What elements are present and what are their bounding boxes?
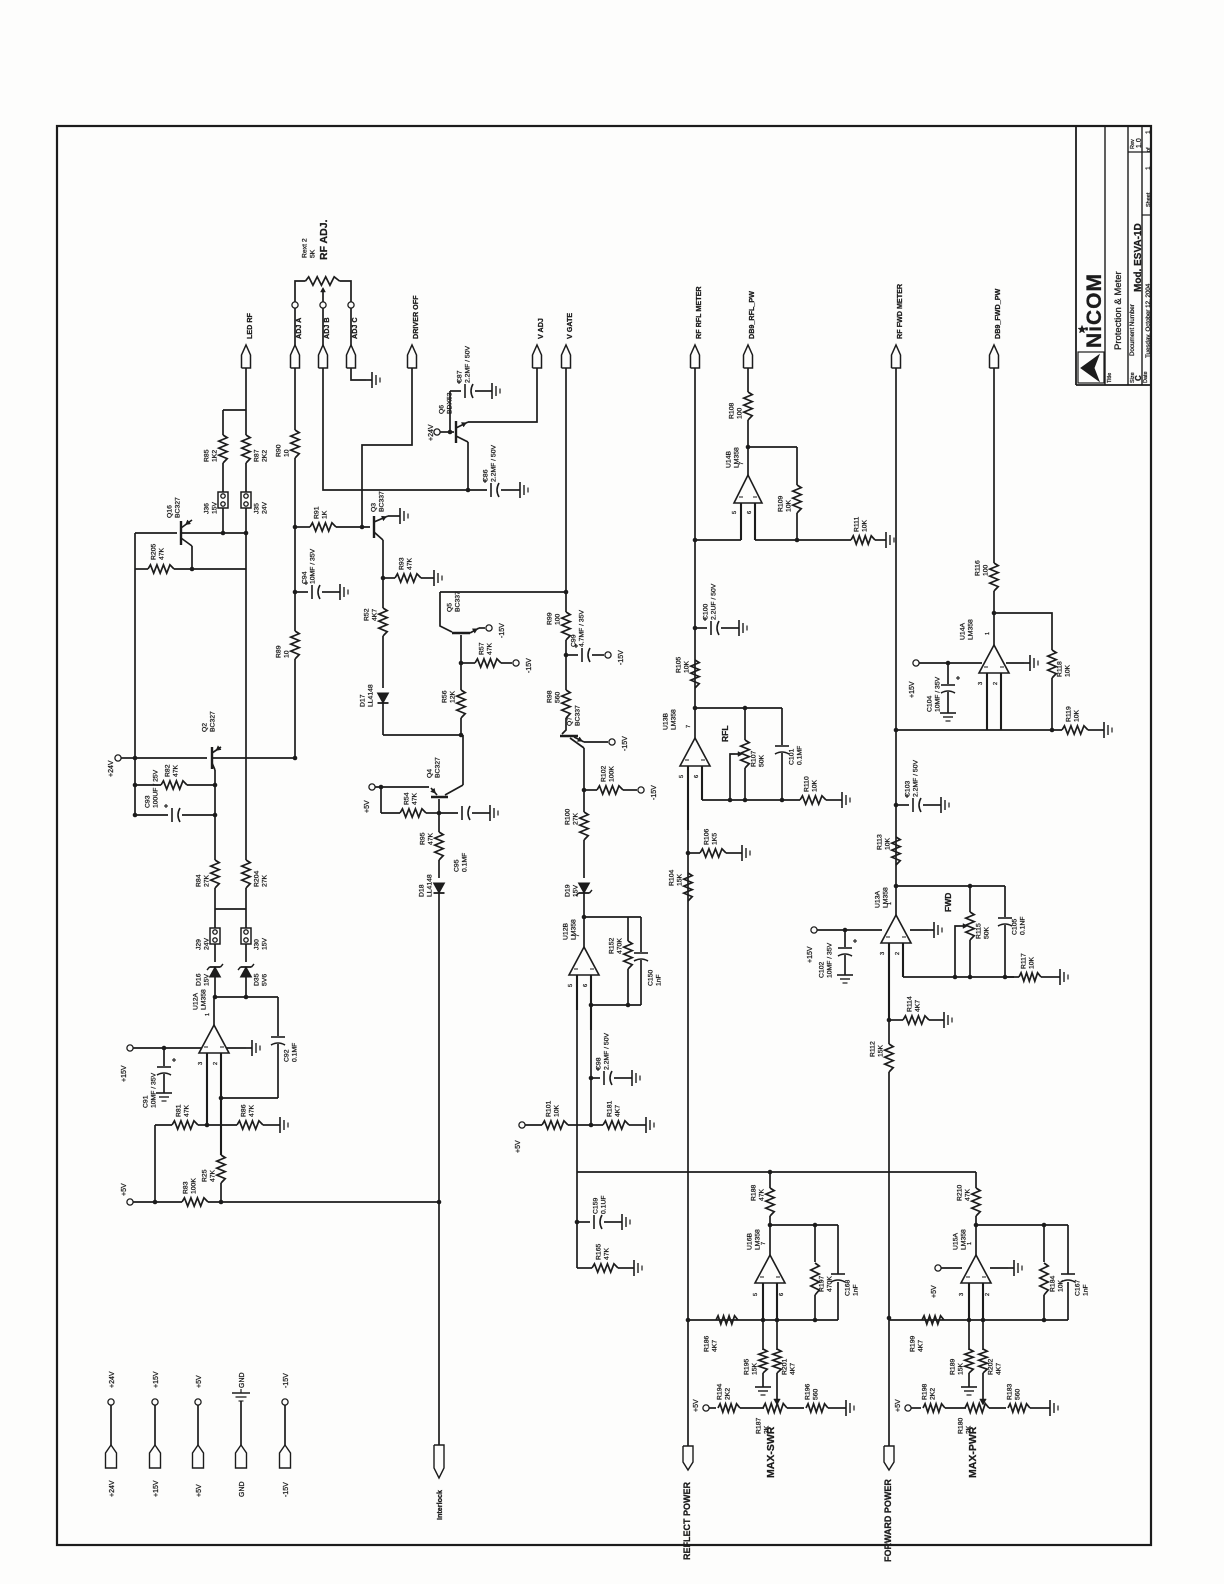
svg-text:LED RF: LED RF	[245, 312, 254, 339]
svg-text:BC327: BC327	[175, 497, 182, 518]
svg-text:R102: R102	[601, 766, 608, 782]
svg-text:R101: R101	[546, 1101, 553, 1117]
svg-text:6: 6	[583, 984, 589, 987]
port ADJ A	[291, 345, 300, 368]
resistor R104 15K	[684, 873, 692, 901]
svg-text:-15V: -15V	[283, 1373, 290, 1388]
svg-text:R187: R187	[756, 1418, 763, 1434]
svg-text:C150: C150	[648, 970, 655, 986]
svg-text:R86: R86	[241, 1104, 248, 1117]
svg-text:100: 100	[983, 564, 990, 576]
svg-text:2.2UF / 50V: 2.2UF / 50V	[711, 583, 718, 620]
svg-text:RFL: RFL	[720, 725, 730, 742]
svg-text:LM358: LM358	[883, 887, 890, 908]
svg-text:+5V: +5V	[121, 1183, 128, 1196]
svg-text:2K2: 2K2	[725, 1388, 732, 1400]
svg-text:15V: 15V	[262, 937, 269, 950]
svg-text:Tuesday, October 12, 2004: Tuesday, October 12, 2004	[1145, 283, 1152, 358]
resistor R109 10K	[748, 446, 797, 448]
capacitor C168 1nF	[837, 1225, 839, 1274]
svg-text:10MF / 35V: 10MF / 35V	[310, 548, 317, 584]
wire U13B feedback top rail	[695, 707, 782, 709]
diode D18 LL4148	[438, 860, 440, 878]
svg-text:27K: 27K	[573, 812, 580, 825]
svg-text:12K: 12K	[450, 690, 457, 703]
jumper J35 24V	[241, 492, 251, 508]
svg-text:15V: 15V	[212, 501, 219, 514]
wire U13A feedback bottom rail	[903, 976, 1014, 978]
svg-text:R98: R98	[547, 690, 554, 703]
trimmer R115 50K FWD	[969, 886, 971, 912]
capacitor C94 10MF/35V	[293, 590, 298, 595]
svg-text:U12B: U12B	[563, 923, 570, 940]
svg-text:4K7: 4K7	[915, 1000, 922, 1012]
svg-text:R189: R189	[950, 1359, 957, 1375]
wire U13A feedback top rail	[896, 885, 1005, 887]
wire U12B input pin5 long	[576, 975, 578, 1010]
capacitor C100 2.2UF/50V	[695, 627, 707, 629]
svg-text:100: 100	[737, 407, 744, 419]
svg-text:U14A: U14A	[960, 623, 967, 640]
svg-text:C99: C99	[571, 634, 578, 647]
svg-text:Protection & Meter: Protection & Meter	[1113, 271, 1124, 350]
svg-text:100K: 100K	[609, 766, 616, 782]
svg-text:10K: 10K	[786, 499, 793, 512]
svg-text:-15V: -15V	[622, 736, 629, 751]
svg-text:R84: R84	[196, 874, 203, 887]
svg-text:2.2MF / 50V: 2.2MF / 50V	[604, 1033, 611, 1070]
svg-text:10K: 10K	[812, 779, 819, 792]
svg-text:3: 3	[880, 952, 886, 955]
svg-text:MAX-PWR: MAX-PWR	[967, 1426, 979, 1478]
svg-text:DRIVER OFF: DRIVER OFF	[411, 295, 420, 339]
svg-text:C86: C86	[483, 469, 490, 482]
svg-text:U13B: U13B	[663, 713, 670, 730]
svg-text:FWD: FWD	[943, 893, 953, 912]
capacitor C87 2.2MF/50V	[449, 391, 451, 432]
wire left rail +24V column	[134, 533, 136, 758]
svg-text:1K5: 1K5	[712, 833, 719, 845]
capacitor C167 1nF	[1067, 1225, 1069, 1274]
op-amp U12B LM358	[583, 917, 585, 947]
svg-text:10MF / 35V: 10MF / 35V	[151, 1072, 158, 1108]
wire J35 down through Q16 node to R205 row	[245, 508, 247, 569]
svg-text:7: 7	[686, 725, 692, 728]
svg-text:R82: R82	[165, 764, 172, 777]
svg-text:C167: C167	[1075, 1280, 1082, 1296]
svg-text:BC327: BC327	[435, 757, 442, 778]
svg-text:+5V: +5V	[515, 1140, 522, 1153]
capacitor C98 2.2MF/50V	[589, 1076, 594, 1081]
ground at ADJ C	[366, 379, 372, 381]
svg-text:MAX-SWR: MAX-SWR	[765, 1426, 777, 1478]
op-amp U13B LM358	[694, 708, 696, 738]
capacitor C102 10MF/35V	[843, 928, 848, 933]
svg-text:4K7: 4K7	[996, 1363, 1003, 1375]
capacitor C91 10MF/35V	[162, 1046, 167, 1051]
svg-text:C94: C94	[302, 571, 309, 584]
svg-text:LM358: LM358	[671, 709, 678, 730]
svg-text:47K: 47K	[249, 1104, 256, 1117]
transistor Q5 BC337	[440, 592, 452, 632]
svg-text:U14B: U14B	[726, 451, 733, 468]
svg-text:BC337: BC337	[455, 591, 462, 612]
port LED RF	[242, 345, 251, 368]
svg-text:U16B: U16B	[747, 1233, 754, 1250]
svg-text:50K: 50K	[759, 754, 766, 767]
resistor R56 12K	[460, 663, 462, 690]
resistor R197 470K	[814, 1225, 816, 1262]
svg-text:C92: C92	[284, 1049, 291, 1062]
trimmer R187 2K	[763, 1404, 787, 1413]
wire Interlock	[438, 1202, 440, 1445]
svg-text:GND: GND	[239, 1372, 246, 1388]
svg-text:+24V: +24V	[108, 760, 115, 777]
svg-text:1: 1	[985, 632, 991, 635]
zener D35 5V6	[245, 944, 247, 962]
svg-text:R115: R115	[976, 923, 983, 939]
svg-text:R119: R119	[1066, 706, 1073, 722]
svg-text:47K: 47K	[412, 792, 419, 805]
svg-text:BC337: BC337	[379, 491, 386, 512]
wire U13B input pin6	[701, 766, 703, 800]
port V GATE	[562, 345, 571, 368]
resistor R101 10K	[525, 1124, 542, 1126]
svg-text:10K: 10K	[862, 519, 869, 532]
svg-text:R54: R54	[404, 792, 411, 805]
wire tie R85 R87 tops	[223, 409, 246, 411]
capacitor C103 2.2MF/50V	[896, 804, 909, 806]
svg-text:-15V: -15V	[618, 650, 625, 665]
svg-text:R198: R198	[922, 1384, 929, 1400]
svg-text:15K: 15K	[958, 1362, 965, 1375]
svg-text:Mod. ESVA-1D: Mod. ESVA-1D	[1133, 223, 1144, 292]
svg-text:2.2MF / 50V: 2.2MF / 50V	[491, 445, 498, 482]
svg-text:R93: R93	[399, 557, 406, 570]
resistor R82 47K	[133, 783, 138, 788]
port REFLECT POWER	[683, 1446, 693, 1470]
resistor R106 1K5	[688, 852, 700, 854]
svg-text:D16: D16	[196, 973, 203, 986]
svg-text:5V6: 5V6	[262, 974, 269, 986]
svg-text:R117: R117	[1021, 953, 1028, 969]
wire C159 R165 stub	[576, 1172, 578, 1268]
svg-text:C93: C93	[145, 795, 152, 808]
svg-text:560: 560	[555, 691, 562, 703]
wire DB9_FWD_PW down	[993, 368, 995, 563]
ground U15A pin4	[990, 1267, 1008, 1269]
svg-text:4.7MF / 35V: 4.7MF / 35V	[579, 610, 586, 647]
resistor R199 4K7	[922, 1316, 944, 1324]
resistor R205 47K	[135, 568, 148, 570]
svg-text:+24V: +24V	[109, 1371, 116, 1388]
transistor Q7 BC337	[562, 728, 566, 734]
wire U16B feedback top rail	[770, 1224, 838, 1226]
capacitor C92 0.1MF	[277, 997, 279, 1036]
svg-text:Q16: Q16	[167, 505, 174, 518]
svg-text:3: 3	[978, 682, 984, 685]
svg-text:+5V: +5V	[693, 1399, 700, 1412]
port ADJ C	[347, 345, 356, 368]
wire C86 rail	[325, 489, 487, 491]
capacitor C101 0.1MF	[781, 708, 783, 745]
capacitor C99 4.7MF/35V	[564, 653, 569, 658]
svg-text:100UF / 25V: 100UF / 25V	[153, 769, 160, 808]
svg-text:+5V: +5V	[364, 800, 371, 813]
pin circle ADJ C	[348, 302, 354, 308]
wire +24V to Q2	[135, 757, 207, 759]
wire ADJ A down to R90	[294, 368, 296, 430]
port DB9_RFL_PW	[744, 345, 753, 368]
svg-text:4K7: 4K7	[372, 609, 379, 621]
ground U13A pin4	[910, 929, 928, 931]
resistor R95 47K	[435, 832, 443, 860]
svg-text:24V: 24V	[204, 937, 211, 950]
svg-text:+15V: +15V	[153, 1480, 160, 1497]
pin circle ADJ A	[292, 302, 298, 308]
svg-text:R91: R91	[314, 506, 321, 519]
svg-text:4K7: 4K7	[790, 1363, 797, 1375]
wire U14A input pin2	[1000, 673, 1002, 730]
svg-text:5K: 5K	[310, 249, 317, 258]
svg-text:C168: C168	[845, 1280, 852, 1296]
svg-text:+5V: +5V	[895, 1399, 902, 1412]
svg-text:LL4148: LL4148	[427, 874, 434, 897]
op-amp U16B LM358	[769, 1225, 771, 1255]
svg-text:R87: R87	[254, 449, 261, 462]
svg-text:47K: 47K	[965, 1188, 972, 1201]
svg-text:15V: 15V	[573, 884, 580, 897]
resistor R25 47K	[217, 1155, 225, 1183]
resistor R198 2K2	[911, 1407, 921, 1409]
svg-text:LM358: LM358	[961, 1229, 968, 1250]
svg-text:6: 6	[694, 775, 700, 778]
svg-text:U15A: U15A	[953, 1233, 960, 1250]
svg-text:LM358: LM358	[201, 989, 208, 1010]
svg-text:U13A: U13A	[875, 891, 882, 908]
resistor R110 10K	[800, 796, 826, 804]
wire V GATE down	[565, 368, 567, 612]
trimmer Rext2 5K	[306, 277, 340, 285]
svg-text:5: 5	[568, 984, 574, 987]
power pin +5V circle MAX-PWR	[905, 1405, 911, 1411]
svg-text:2: 2	[985, 1293, 991, 1296]
svg-text:R205: R205	[151, 544, 158, 560]
op-amp U14B LM358	[747, 447, 749, 475]
svg-text:10MF / 35V: 10MF / 35V	[935, 676, 942, 712]
svg-text:0.1MF: 0.1MF	[292, 1043, 299, 1062]
jumper J30 15V	[241, 928, 251, 944]
wire U15A input pin3	[968, 1283, 970, 1320]
wire Q5 collector row	[440, 591, 566, 593]
port ADJ B	[319, 345, 328, 368]
svg-text:0.1MF: 0.1MF	[462, 853, 469, 872]
wire U12A input pin3	[206, 1053, 208, 1125]
svg-text:Q2: Q2	[202, 723, 209, 732]
resistor R195 15K	[762, 1320, 764, 1350]
svg-text:10K: 10K	[1065, 664, 1072, 677]
svg-text:2.2MF / 50V: 2.2MF / 50V	[913, 760, 920, 797]
wire U13B input pin5 long	[687, 766, 689, 830]
svg-text:7: 7	[761, 1242, 767, 1245]
svg-text:R57: R57	[479, 642, 486, 655]
trimmer R180 2K	[965, 1404, 989, 1413]
svg-text:Sheet: Sheet	[1146, 192, 1152, 207]
svg-text:LM358: LM358	[968, 619, 975, 640]
svg-text:+5V: +5V	[931, 1285, 938, 1298]
svg-text:NiCOM: NiCOM	[1083, 273, 1106, 348]
port FORWARD POWER	[884, 1446, 894, 1470]
port RF FWD METER	[892, 345, 901, 368]
svg-text:Date: Date	[1143, 371, 1149, 383]
svg-text:4K7: 4K7	[918, 1340, 925, 1352]
resistor R93 47K	[381, 576, 386, 581]
jumper J29 24V	[210, 928, 220, 944]
svg-text:100K: 100K	[191, 1178, 198, 1194]
wire R81 to +5V rail	[154, 1125, 156, 1202]
svg-text:D18: D18	[419, 884, 426, 897]
svg-text:C87: C87	[457, 370, 464, 383]
svg-text:R99: R99	[547, 612, 554, 625]
Rext2 wiper arrow	[322, 291, 324, 302]
svg-text:2.2MF / 50V: 2.2MF / 50V	[465, 346, 472, 383]
wire U16B feedback bottom rail	[688, 1319, 838, 1321]
svg-text:1nF: 1nF	[656, 974, 663, 986]
jumper J36 15V	[218, 492, 228, 508]
power pin -15V circle C99	[605, 652, 611, 658]
svg-text:D35: D35	[254, 973, 261, 986]
zener D16 15V	[214, 944, 216, 962]
svg-text:R83: R83	[183, 1181, 190, 1194]
svg-text:24V: 24V	[262, 501, 269, 514]
power pin +15V circle U13A	[811, 927, 817, 933]
wire U13B feedback bottom rail	[702, 799, 800, 801]
resistor R83 100K	[133, 1201, 182, 1203]
wire U12A feedback top rail	[213, 995, 218, 1000]
svg-text:10K: 10K	[1029, 956, 1036, 969]
svg-text:D17: D17	[360, 694, 367, 707]
svg-text:47K: 47K	[210, 1169, 217, 1182]
power pin -15V circle R102	[638, 787, 644, 793]
resistor R202 4K7	[982, 1320, 984, 1350]
svg-text:R100: R100	[565, 809, 572, 825]
transistor Q2 BC327	[211, 747, 213, 769]
svg-text:+15V: +15V	[909, 681, 916, 698]
resistor R183 560	[989, 1407, 1006, 1409]
wire REFLECT POWER	[687, 1320, 689, 1446]
svg-text:Title: Title	[1107, 373, 1113, 383]
svg-text:R52: R52	[364, 608, 371, 621]
op-amp U14A LM358	[993, 613, 995, 645]
svg-text:Q3: Q3	[371, 503, 378, 512]
svg-text:1: 1	[1145, 130, 1152, 134]
svg-text:+5V: +5V	[196, 1484, 203, 1497]
wire U12A feedback bottom rail	[221, 1097, 278, 1099]
wire U16B input pin5	[762, 1283, 764, 1320]
resistor R194 2K2	[709, 1407, 716, 1409]
wire FORWARD POWER	[888, 1320, 890, 1446]
wire ADJ B long vertical to C86 rail	[323, 368, 325, 490]
svg-text:of: of	[1146, 147, 1152, 152]
transistor Q4 BC327	[375, 786, 429, 788]
wire U14A input rail	[896, 729, 1062, 731]
svg-text:5: 5	[753, 1293, 759, 1296]
svg-text:3: 3	[959, 1293, 965, 1296]
power pin -15V circle R57	[513, 660, 519, 666]
svg-text:10K: 10K	[684, 660, 691, 673]
wire U13A input pin2	[902, 943, 904, 977]
pin circle ADJ B	[320, 302, 326, 308]
svg-text:+24V: +24V	[109, 1480, 116, 1497]
capacitor C159 0.1UF	[577, 1221, 590, 1223]
svg-text:C: C	[1134, 375, 1143, 381]
wire tie chain	[215, 908, 246, 910]
svg-text:R188: R188	[751, 1185, 758, 1201]
wire U14B input pin6	[754, 503, 756, 540]
svg-text:1K: 1K	[322, 510, 329, 519]
svg-text:470K: 470K	[827, 1276, 834, 1292]
wire U16B input pin6	[776, 1283, 778, 1320]
svg-text:Q6: Q6	[439, 405, 446, 414]
resistor R118 10K	[994, 613, 1052, 650]
svg-text:10MF / 35V: 10MF / 35V	[827, 942, 834, 978]
svg-text:FORWARD POWER: FORWARD POWER	[883, 1479, 893, 1562]
wire U12B feedback top rail	[582, 915, 587, 920]
svg-text:6: 6	[779, 1293, 785, 1296]
svg-text:R112: R112	[870, 1041, 877, 1057]
port Interlock	[434, 1445, 444, 1478]
svg-text:J36: J36	[204, 503, 211, 514]
transistor Q3 BC337	[373, 516, 375, 538]
svg-text:V ADJ: V ADJ	[536, 318, 545, 339]
svg-text:0.1UF: 0.1UF	[601, 1195, 608, 1214]
power pin +5V circle MAX-SWR	[703, 1405, 709, 1411]
svg-text:2K2: 2K2	[930, 1388, 937, 1400]
svg-text:R90: R90	[276, 444, 283, 457]
resistor R201 4K7	[776, 1320, 778, 1350]
power pin +5V circle U15A	[935, 1265, 941, 1271]
svg-text:15K: 15K	[878, 1044, 885, 1057]
resistor R100 27K	[583, 790, 585, 812]
svg-text:C103: C103	[905, 781, 912, 797]
power pin -15V circle Q5	[486, 625, 492, 631]
svg-text:47K: 47K	[159, 547, 166, 560]
resistor R85 1K2	[222, 410, 224, 435]
svg-text:R186: R186	[704, 1336, 711, 1352]
svg-text:C95: C95	[454, 859, 461, 872]
resistor R116 100	[990, 563, 998, 591]
svg-text:15K: 15K	[752, 1362, 759, 1375]
resistor R204 27K	[245, 569, 247, 860]
svg-text:C91: C91	[143, 1095, 150, 1108]
wire U15A feedback bottom rail	[889, 1319, 1068, 1321]
resistor R186 4K7	[716, 1316, 738, 1324]
svg-text:15K: 15K	[677, 873, 684, 886]
ground U12A pin4	[226, 1047, 246, 1049]
wire pot to ADJ B port	[322, 308, 324, 345]
resistor R90 10	[291, 430, 299, 458]
wire J36 to Q16 node	[222, 508, 224, 533]
svg-text:RF RFL METER: RF RFL METER	[694, 286, 703, 339]
svg-text:27K: 27K	[204, 874, 211, 887]
svg-text:R210: R210	[957, 1185, 964, 1201]
resistor R87 2K2	[245, 410, 247, 435]
wire U12B feedback bottom rail	[591, 1004, 641, 1006]
resistor R152 470K	[627, 917, 629, 941]
resistor R52 4K7	[382, 578, 384, 608]
svg-text:C159: C159	[593, 1198, 600, 1214]
svg-text:-15V: -15V	[651, 785, 658, 800]
